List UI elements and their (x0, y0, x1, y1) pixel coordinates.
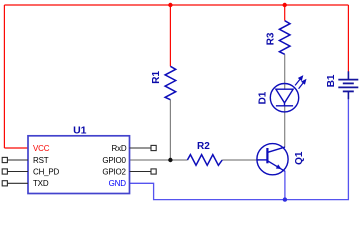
svg-text:Q1: Q1 (294, 151, 305, 165)
junction: GPIO0/R1/R2 node (168, 158, 172, 162)
pin stub GPIO2 (130, 169, 157, 174)
svg-text:B1: B1 (326, 74, 337, 87)
svg-text:R2: R2 (197, 141, 210, 152)
junction: emitter/GND node (283, 197, 287, 201)
junction: VCC/R1 node (168, 3, 172, 7)
wire: D1 cathode to Q1 collector (grey) (284, 106, 286, 147)
svg-text:RxD: RxD (112, 144, 127, 153)
wire: R3 bottom to D1 anode (grey) (284, 54, 286, 89)
svg-text:R1: R1 (151, 70, 162, 83)
LED arrow 1 (295, 76, 302, 85)
svg-text:D1: D1 (258, 91, 269, 104)
resistor R3 (279, 21, 290, 55)
wire: VCC right vertical to battery (red) (347, 5, 349, 72)
Q1 emitter arrowhead (276, 165, 280, 169)
wire: R1 bottom to GPIO0 net (grey) (169, 100, 171, 160)
wire: GPIO0 from U1 to R2 (grey) (130, 159, 188, 161)
svg-text:VCC: VCC (33, 144, 50, 153)
svg-text:R3: R3 (266, 32, 277, 45)
resistor R2 (187, 155, 222, 166)
svg-text:GPIO0: GPIO0 (102, 156, 126, 165)
pin stub RST (2, 157, 28, 162)
wire: VCC drop to R1 (red) (169, 5, 171, 66)
svg-text:TXD: TXD (33, 179, 49, 188)
transistor Q1 (257, 144, 288, 175)
wire: GND from U1 pin (blue) (130, 99, 349, 199)
battery B1 (338, 71, 358, 99)
svg-text:GND: GND (109, 179, 127, 188)
LED D1 (270, 84, 298, 112)
svg-text:GPIO2: GPIO2 (102, 167, 126, 176)
pin stub CH_PD (2, 169, 28, 174)
wire: Q1 emitter to GND (blue) (284, 171, 286, 200)
wire: R2 to Q1 base (grey) (222, 159, 258, 161)
pin stub TXD (2, 181, 28, 186)
wire: VCC left vertical (red) (3, 5, 5, 148)
svg-text:RST: RST (33, 156, 49, 165)
svg-text:CH_PD: CH_PD (33, 167, 60, 176)
wire: VCC into U1 pin (red) (4, 147, 28, 149)
resistor R1 (165, 66, 176, 99)
svg-text:U1: U1 (73, 125, 87, 137)
wire: VCC top horizontal (red) (4, 4, 348, 6)
IC U1 body (28, 136, 130, 194)
junction: VCC/R3 node (283, 3, 287, 7)
pin stub RxD (130, 145, 157, 150)
wire: VCC drop to R3 (red) (284, 5, 286, 21)
LED arrow 2 (299, 80, 306, 89)
